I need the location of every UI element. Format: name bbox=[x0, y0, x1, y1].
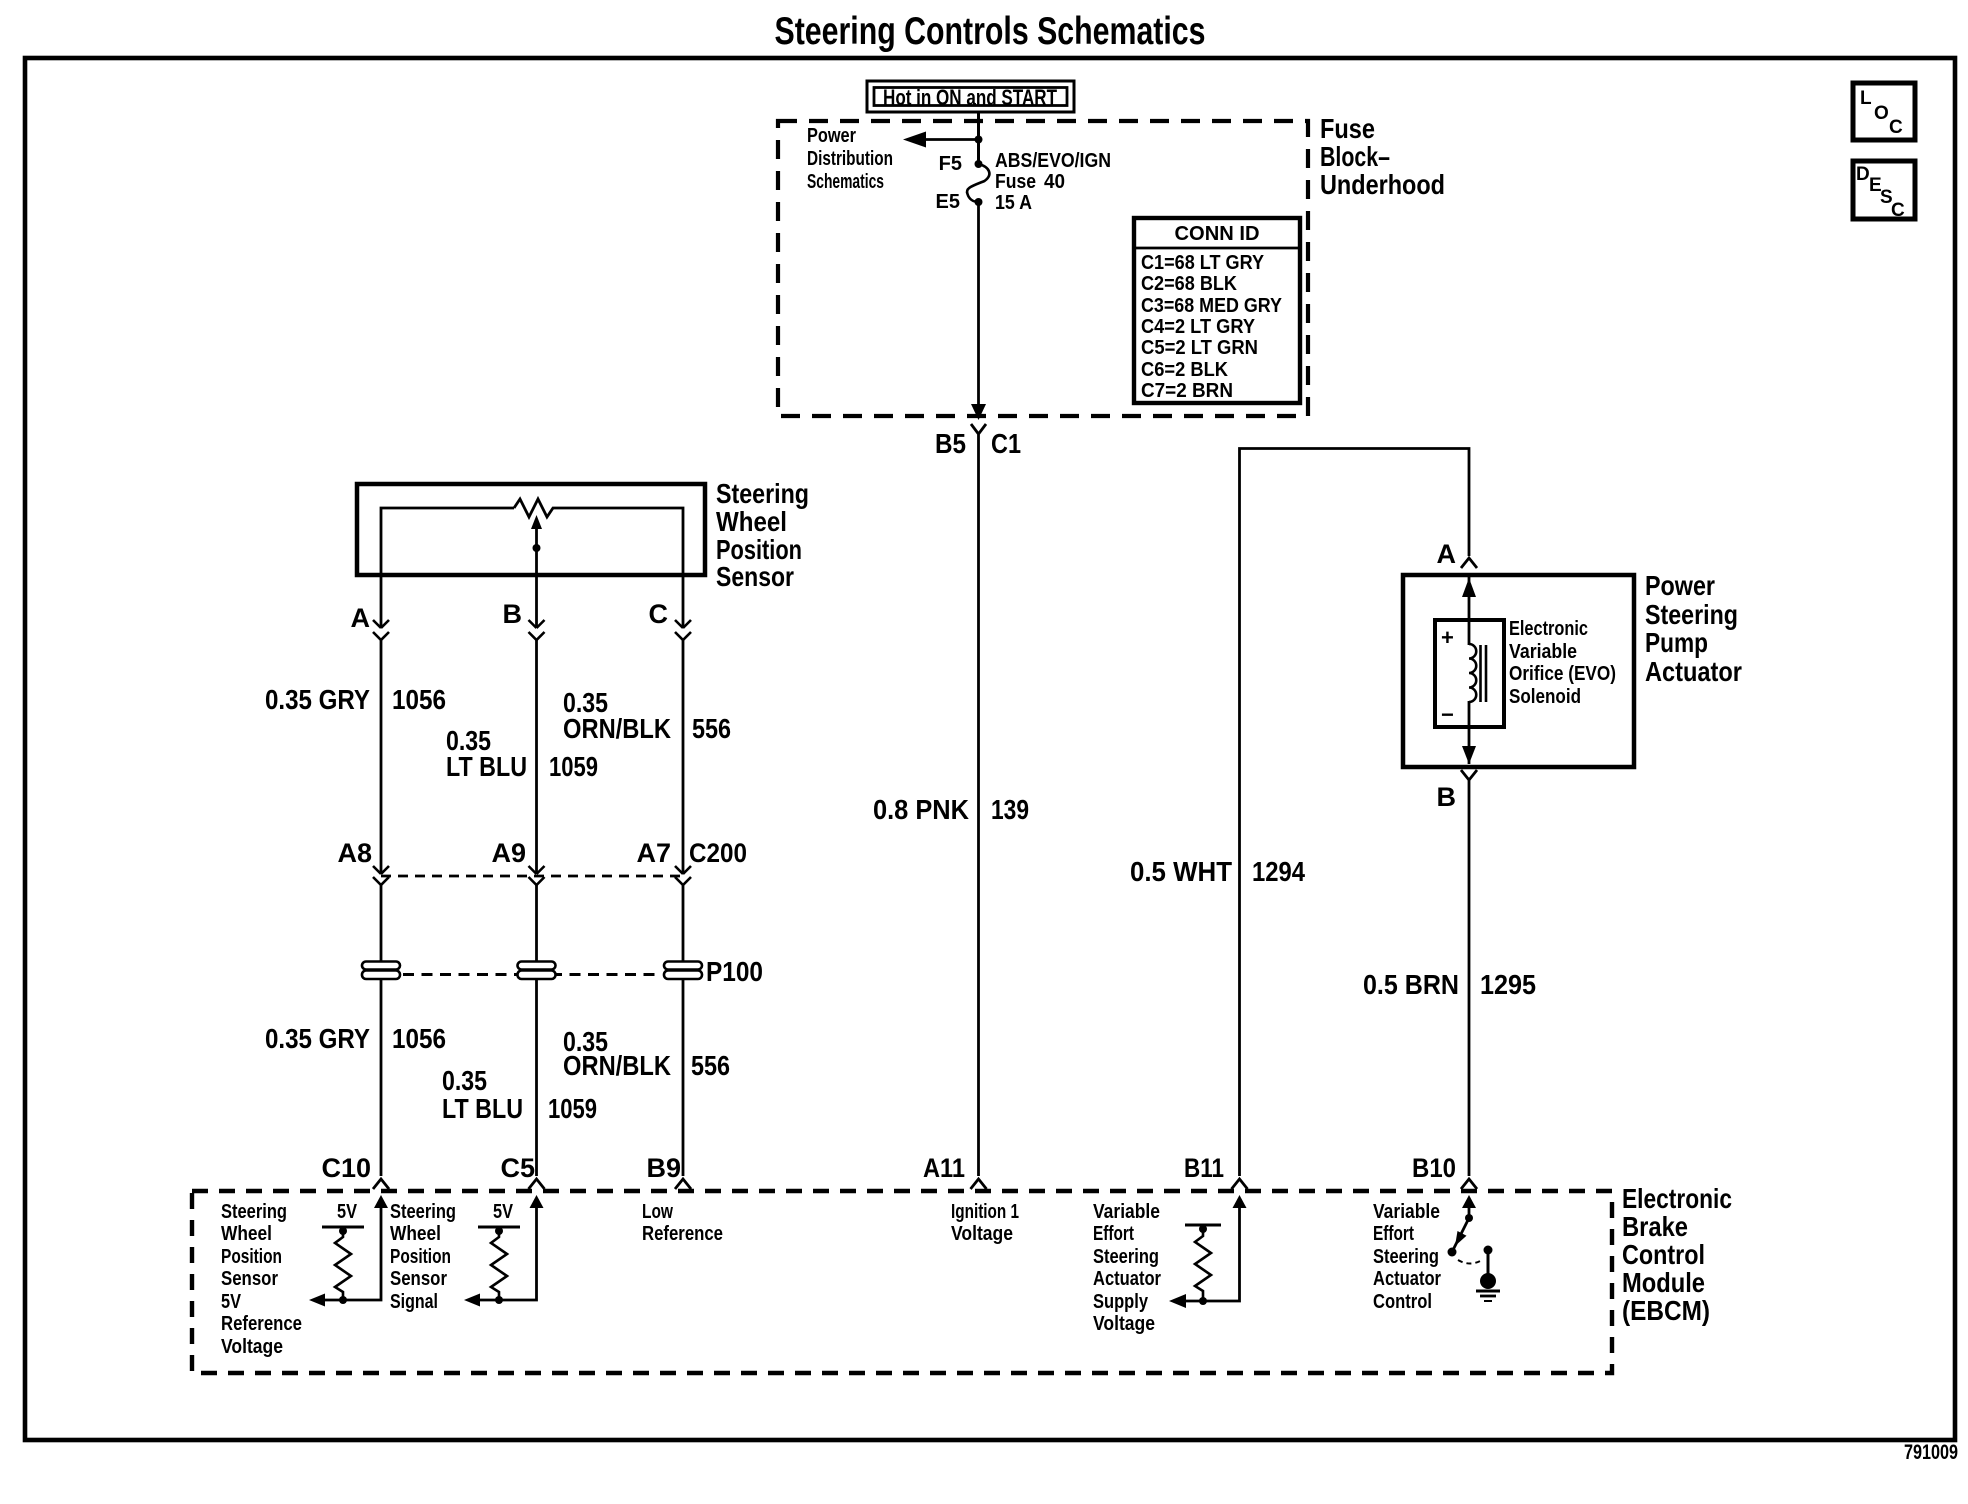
connector symbol at sensor pin A bbox=[373, 620, 389, 640]
label: Electronic Brake Control Module (EBCM) bbox=[1622, 1183, 1732, 1326]
svg-text:D: D bbox=[1856, 164, 1870, 185]
svg-text:0.35 GRY: 0.35 GRY bbox=[265, 1023, 370, 1054]
svg-text:Control: Control bbox=[1373, 1291, 1432, 1313]
svg-text:556: 556 bbox=[691, 1050, 730, 1081]
wire with internal output arrow (C10) bbox=[309, 1195, 388, 1307]
svg-text:Reference: Reference bbox=[642, 1223, 723, 1245]
wire with internal output arrow (B11) bbox=[1169, 1195, 1247, 1308]
svg-text:LT BLU: LT BLU bbox=[446, 751, 527, 782]
Hot in ON and START banner box bbox=[867, 81, 1074, 112]
svg-text:1056: 1056 bbox=[392, 684, 446, 715]
label: Variable Effort Steering Actuator Supply Voltage bbox=[1093, 1201, 1161, 1335]
svg-text:1294: 1294 bbox=[1252, 856, 1305, 887]
svg-text:0.35: 0.35 bbox=[442, 1065, 487, 1096]
svg-text:Position: Position bbox=[221, 1246, 282, 1268]
label: Low Reference bbox=[642, 1201, 723, 1245]
svg-text:A7: A7 bbox=[636, 838, 671, 868]
svg-text:Low: Low bbox=[642, 1201, 673, 1223]
wire B mid run bbox=[535, 885, 538, 962]
svg-text:Solenoid: Solenoid bbox=[1509, 686, 1581, 708]
svg-text:Steering Controls Schematics: Steering Controls Schematics bbox=[775, 10, 1206, 53]
svg-text:E5: E5 bbox=[936, 191, 960, 213]
connector Y symbol at pump pin B bbox=[1461, 770, 1477, 798]
node: junction at B11 resistor foot bbox=[1199, 1297, 1207, 1305]
svg-text:Steering: Steering bbox=[1373, 1246, 1439, 1268]
wire: branch to power steering pump actuator bbox=[1240, 449, 1470, 1177]
wire B lower run bbox=[535, 979, 538, 1176]
svg-text:A8: A8 bbox=[337, 838, 372, 868]
svg-text:Voltage: Voltage bbox=[221, 1336, 283, 1358]
svg-text:C7=2 BRN: C7=2 BRN bbox=[1141, 380, 1233, 402]
svg-text:5V: 5V bbox=[337, 1201, 358, 1223]
svg-text:Brake: Brake bbox=[1622, 1211, 1688, 1242]
svg-text:40: 40 bbox=[1044, 171, 1065, 193]
wire A from sensor bbox=[380, 575, 383, 628]
potentiometer track wiring inside sensor bbox=[381, 508, 683, 575]
svg-text:1059: 1059 bbox=[548, 1093, 597, 1124]
svg-text:Block–: Block– bbox=[1320, 141, 1390, 172]
wire A upper run bbox=[380, 640, 383, 873]
svg-text:1056: 1056 bbox=[392, 1023, 446, 1054]
svg-text:B10: B10 bbox=[1412, 1153, 1456, 1183]
LOC reference box bbox=[1853, 83, 1915, 140]
svg-text:C5: C5 bbox=[500, 1153, 535, 1183]
CONN ID table bbox=[1134, 218, 1300, 403]
wire C from sensor bbox=[682, 575, 685, 628]
svg-text:5V: 5V bbox=[221, 1291, 242, 1313]
svg-text:O: O bbox=[1874, 103, 1889, 124]
svg-text:C2=68 BLK: C2=68 BLK bbox=[1141, 273, 1237, 295]
grounded contact of B10 switch bbox=[1480, 1246, 1496, 1290]
wire A lower run bbox=[380, 979, 383, 1176]
svg-text:C1: C1 bbox=[991, 428, 1021, 459]
label: Power Steering Pump Actuator bbox=[1645, 570, 1742, 687]
wire with internal output arrow (C5) bbox=[464, 1195, 544, 1307]
EBCM dashed box bbox=[192, 1191, 1612, 1373]
svg-text:A11: A11 bbox=[923, 1153, 965, 1183]
svg-text:C: C bbox=[1891, 200, 1905, 221]
svg-text:Supply: Supply bbox=[1093, 1291, 1149, 1313]
EVO solenoid inner box bbox=[1435, 620, 1504, 727]
svg-text:CONN ID: CONN ID bbox=[1175, 223, 1260, 245]
svg-text:Position: Position bbox=[390, 1246, 451, 1268]
svg-text:Fuse: Fuse bbox=[995, 171, 1036, 193]
wire: ignition feed B5/C1 down to EBCM A11 bbox=[977, 460, 980, 1176]
svg-text:Underhood: Underhood bbox=[1320, 169, 1445, 200]
svg-text:L: L bbox=[1860, 88, 1872, 109]
connector C200 symbol at A8 bbox=[373, 866, 389, 885]
svg-text:Power: Power bbox=[807, 125, 856, 147]
ground symbol bbox=[1476, 1291, 1500, 1301]
grommet P100 at wire A bbox=[362, 962, 400, 980]
svg-text:Control: Control bbox=[1622, 1239, 1705, 1270]
resistor: potentiometer element bbox=[514, 499, 558, 517]
svg-text:Sensor: Sensor bbox=[716, 561, 794, 592]
svg-text:Schematics: Schematics bbox=[807, 171, 884, 193]
svg-text:791009: 791009 bbox=[1904, 1441, 1958, 1464]
connector C200 dashed tie line bbox=[381, 875, 683, 878]
svg-text:Actuator: Actuator bbox=[1373, 1268, 1441, 1290]
svg-text:Signal: Signal bbox=[390, 1291, 438, 1313]
svg-text:A: A bbox=[351, 603, 371, 633]
svg-text:Sensor: Sensor bbox=[221, 1268, 278, 1290]
svg-text:Reference: Reference bbox=[221, 1313, 302, 1335]
connector chevron at A11 bbox=[971, 1179, 987, 1189]
svg-text:C: C bbox=[649, 599, 669, 629]
svg-text:15 A: 15 A bbox=[995, 192, 1032, 214]
svg-text:−: − bbox=[1441, 702, 1454, 727]
svg-text:Effort: Effort bbox=[1373, 1223, 1414, 1245]
svg-text:B: B bbox=[1437, 782, 1457, 812]
Power Steering Pump Actuator box bbox=[1403, 575, 1634, 767]
svg-text:C5=2 LT GRN: C5=2 LT GRN bbox=[1141, 337, 1258, 359]
label: Steering Wheel Position Sensor 5V Reference Voltage bbox=[221, 1201, 302, 1358]
connector chevron at B9 bbox=[675, 1179, 691, 1189]
svg-text:Pump: Pump bbox=[1645, 627, 1708, 658]
svg-text:Voltage: Voltage bbox=[951, 1223, 1013, 1245]
switch: B10 driver bbox=[1448, 1195, 1483, 1264]
label: Fuse Block-Underhood bbox=[1320, 113, 1445, 200]
wiper arrow and node bbox=[531, 515, 542, 552]
svg-text:A: A bbox=[1437, 539, 1457, 569]
svg-text:Actuator: Actuator bbox=[1645, 656, 1742, 687]
label: Steering Wheel Position Sensor bbox=[716, 478, 809, 592]
solenoid core lines bbox=[1479, 645, 1482, 702]
svg-text:Fuse: Fuse bbox=[1320, 113, 1375, 144]
grommet P100 dashed tie line bbox=[403, 973, 661, 976]
svg-text:P100: P100 bbox=[706, 956, 763, 987]
DESC reference box bbox=[1853, 161, 1915, 221]
svg-text:Wheel: Wheel bbox=[221, 1223, 272, 1245]
svg-text:5V: 5V bbox=[493, 1201, 514, 1223]
resistor: C5 pull-up bbox=[491, 1231, 507, 1299]
svg-text:C10: C10 bbox=[321, 1153, 371, 1183]
inductor: EVO solenoid coil bbox=[1469, 644, 1476, 702]
rail bar (B11 resistor) bbox=[1185, 1224, 1221, 1227]
svg-text:0.35 GRY: 0.35 GRY bbox=[265, 684, 370, 715]
svg-text:Effort: Effort bbox=[1093, 1223, 1134, 1245]
svg-text:0.5 WHT: 0.5 WHT bbox=[1130, 856, 1232, 887]
svg-text:Module: Module bbox=[1622, 1267, 1705, 1298]
svg-text:Sensor: Sensor bbox=[390, 1268, 447, 1290]
svg-text:LT BLU: LT BLU bbox=[442, 1093, 523, 1124]
svg-text:B: B bbox=[503, 599, 523, 629]
svg-text:0.5 BRN: 0.5 BRN bbox=[1363, 969, 1459, 1000]
5V rail bar (C5) bbox=[478, 1226, 520, 1229]
fuse value labels bbox=[995, 150, 1111, 214]
label: Power Distribution Schematics bbox=[807, 125, 893, 193]
svg-text:Steering: Steering bbox=[221, 1201, 287, 1223]
svg-text:Electronic: Electronic bbox=[1622, 1183, 1732, 1214]
svg-text:Variable: Variable bbox=[1509, 641, 1577, 663]
svg-text:1059: 1059 bbox=[549, 751, 598, 782]
connector symbol at sensor pin B bbox=[529, 620, 545, 640]
wire entering pump box with arrow bbox=[1468, 575, 1471, 645]
svg-text:0.8 PNK: 0.8 PNK bbox=[873, 794, 969, 825]
wire: feed from Hot banner down into fuse block bbox=[977, 112, 980, 164]
svg-text:Ignition 1: Ignition 1 bbox=[951, 1201, 1019, 1223]
Steering Wheel Position Sensor box bbox=[357, 484, 705, 575]
wire: pump B down to EBCM B10 bbox=[1468, 798, 1471, 1176]
connector C1 Y symbol bbox=[971, 424, 986, 460]
Fuse Block - Underhood dashed box bbox=[778, 121, 1308, 416]
svg-text:Electronic: Electronic bbox=[1509, 618, 1588, 640]
wire leaving pump box with arrow bbox=[1468, 701, 1471, 764]
connector chevron at C5 bbox=[529, 1179, 545, 1189]
wire C upper run bbox=[682, 640, 685, 873]
wire: arrow to Power Distribution Schematics bbox=[920, 138, 979, 141]
node: junction dot at power distribution tap bbox=[975, 136, 983, 144]
fuse ABS/EVO/IGN Fuse 40 15A symbol bbox=[967, 160, 989, 206]
svg-text:A9: A9 bbox=[491, 838, 526, 868]
svg-text:Variable: Variable bbox=[1373, 1201, 1440, 1223]
svg-text:Actuator: Actuator bbox=[1093, 1268, 1161, 1290]
svg-text:(EBCM): (EBCM) bbox=[1622, 1295, 1710, 1326]
label: Ignition 1 Voltage bbox=[951, 1201, 1019, 1245]
svg-text:C6=2 BLK: C6=2 BLK bbox=[1141, 359, 1229, 381]
node: junction at C10 resistor foot bbox=[339, 1296, 347, 1304]
svg-text:ORN/BLK: ORN/BLK bbox=[563, 1050, 671, 1081]
svg-text:+: + bbox=[1441, 625, 1454, 650]
svg-text:556: 556 bbox=[692, 713, 731, 744]
svg-text:B9: B9 bbox=[646, 1153, 681, 1183]
svg-text:C3=68 MED GRY: C3=68 MED GRY bbox=[1141, 295, 1283, 317]
node: junction at C5 resistor foot bbox=[495, 1296, 503, 1304]
connector chevron at pump pin A bbox=[1461, 558, 1477, 568]
connector chevron at C10 bbox=[373, 1179, 389, 1189]
wire: fuse output down to fuse block edge bbox=[977, 202, 980, 408]
svg-text:Voltage: Voltage bbox=[1093, 1313, 1155, 1335]
wire C mid run bbox=[682, 885, 685, 962]
connector C200 symbol at A7 bbox=[675, 866, 691, 885]
resistor: C10 pull-up bbox=[335, 1231, 351, 1299]
svg-text:B11: B11 bbox=[1184, 1153, 1224, 1183]
grommet P100 at wire B bbox=[518, 962, 556, 980]
svg-text:C200: C200 bbox=[689, 838, 747, 868]
arrow at fuse block exit bbox=[971, 404, 986, 420]
5V rail bar (C10) bbox=[322, 1226, 364, 1229]
svg-text:Steering: Steering bbox=[1093, 1246, 1159, 1268]
label: Variable Effort Steering Actuator Control bbox=[1373, 1201, 1441, 1313]
svg-text:Distribution: Distribution bbox=[807, 148, 893, 170]
svg-text:ABS/EVO/IGN: ABS/EVO/IGN bbox=[995, 150, 1111, 172]
svg-text:C4=2 LT GRY: C4=2 LT GRY bbox=[1141, 316, 1256, 338]
svg-text:ORN/BLK: ORN/BLK bbox=[563, 713, 671, 744]
wire C lower run bbox=[682, 979, 685, 1176]
svg-text:B5: B5 bbox=[935, 428, 966, 459]
connector chevron at B11 bbox=[1232, 1179, 1248, 1189]
wire A mid run bbox=[380, 885, 383, 962]
svg-text:Power: Power bbox=[1645, 570, 1715, 601]
connector chevron at B10 bbox=[1461, 1179, 1477, 1189]
svg-text:Orifice (EVO): Orifice (EVO) bbox=[1509, 663, 1616, 685]
svg-text:Steering: Steering bbox=[716, 478, 809, 509]
svg-text:C: C bbox=[1889, 117, 1903, 138]
svg-text:Wheel: Wheel bbox=[390, 1223, 441, 1245]
wire B from wiper bbox=[535, 548, 538, 628]
svg-text:1295: 1295 bbox=[1480, 969, 1536, 1000]
svg-text:139: 139 bbox=[991, 794, 1029, 825]
svg-text:Hot in ON and START: Hot in ON and START bbox=[883, 85, 1057, 110]
svg-text:Steering: Steering bbox=[390, 1201, 456, 1223]
connector symbol at sensor pin C bbox=[675, 620, 691, 640]
svg-text:F5: F5 bbox=[939, 153, 962, 175]
label: Electronic Variable Orifice (EVO) Solenoid bbox=[1509, 618, 1616, 708]
grommet P100 at wire C bbox=[664, 962, 702, 980]
label: Steering Wheel Position Sensor Signal bbox=[390, 1201, 456, 1313]
wire B upper run bbox=[535, 640, 538, 873]
svg-text:Wheel: Wheel bbox=[716, 506, 787, 537]
resistor: B11 supply bbox=[1195, 1229, 1211, 1298]
svg-text:C1=68 LT GRY: C1=68 LT GRY bbox=[1141, 252, 1265, 274]
svg-text:Steering: Steering bbox=[1645, 599, 1738, 630]
svg-text:Variable: Variable bbox=[1093, 1201, 1160, 1223]
connector C200 symbol at A9 bbox=[529, 866, 545, 885]
